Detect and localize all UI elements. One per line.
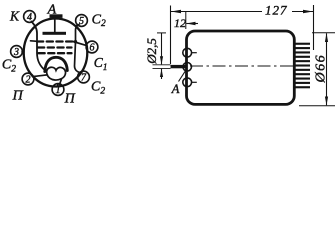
pin 7 circle [78, 71, 90, 83]
anode lead [171, 65, 188, 68]
dim 2,5 upper line [161, 33, 163, 64]
dim 2,5 lower line [161, 69, 163, 79]
terminal bead middle (anode lead) [183, 63, 192, 72]
wire heater to pin1 [60, 79, 62, 85]
dim 2,5 top tick [157, 32, 166, 34]
extension line right (fin tip) [313, 5, 315, 50]
radiator fins [294, 43, 311, 89]
svg-text:Ø2,5: Ø2,5 [144, 38, 159, 65]
grid g1 row (dashed) [39, 52, 72, 54]
lead extension line bottom [153, 67, 171, 69]
stub pin6 [86, 45, 89, 47]
wire pin4 cathode line [32, 22, 46, 71]
svg-text:4: 4 [27, 12, 32, 23]
grid g3 row (dashed) [37, 40, 73, 42]
terminal bead bottom [183, 78, 192, 87]
pin 3 circle [11, 46, 23, 58]
svg-text:А: А [47, 2, 57, 17]
bead stub top [191, 52, 196, 54]
svg-text:127: 127 [265, 3, 288, 18]
wire grid row to envelope left [31, 40, 38, 43]
svg-text:1: 1 [56, 85, 61, 96]
pin 5 circle [76, 15, 88, 27]
arrowhead 127 left [171, 10, 181, 13]
wire screen vertical to pin7 [75, 42, 81, 73]
heater loop [47, 67, 66, 80]
svg-text:П: П [64, 92, 76, 107]
stub pin5 [76, 25, 77, 26]
grid g2 row (dashed) [38, 46, 72, 48]
stub pin3 [22, 51, 24, 53]
svg-text:2: 2 [26, 74, 31, 85]
cathode arc [45, 57, 68, 71]
dimension line 127 [171, 11, 262, 13]
pin digits [13, 12, 95, 96]
pin 4 circle [24, 11, 36, 23]
extension line body left edge [185, 12, 187, 29]
O66 dim line [326, 33, 328, 105]
svg-text:5: 5 [79, 16, 84, 27]
centerline axis [190, 65, 301, 67]
svg-text:А: А [171, 82, 180, 96]
anode lead wire [54, 18, 56, 33]
svg-text:П: П [12, 89, 24, 104]
wire screen vertical to pin5 [76, 25, 80, 42]
bead stub bottom [191, 81, 196, 83]
O66 extension bottom [299, 105, 335, 107]
arrowhead 127 right [303, 10, 313, 13]
tube body outline [187, 31, 295, 104]
label A leader [179, 70, 186, 81]
wire heater to pin2 [34, 75, 48, 77]
terminal bead top [183, 48, 192, 57]
svg-text:Ø66: Ø66 [314, 54, 329, 84]
anode top cap terminal [50, 14, 63, 18]
svg-text:3: 3 [13, 47, 19, 58]
anode plate [43, 32, 67, 35]
lead extension line top [153, 64, 171, 66]
wire g3 row to pin6 [73, 42, 86, 46]
svg-text:6: 6 [90, 42, 95, 53]
pin 1 circle [52, 84, 64, 96]
pin 6 circle [86, 41, 98, 53]
pin 2 circle [22, 73, 34, 85]
O66 extension top [312, 32, 335, 34]
tube envelope circle [24, 19, 88, 87]
extension line left (lead tip) [170, 6, 172, 65]
junction dot [74, 40, 77, 43]
svg-text:12: 12 [174, 16, 186, 30]
svg-text:К: К [9, 8, 20, 23]
arrow 12 [186, 23, 198, 25]
stub pin1 [57, 84, 59, 86]
